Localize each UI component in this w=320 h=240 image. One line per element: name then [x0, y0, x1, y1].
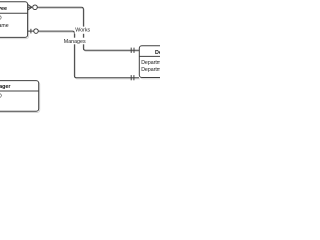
background	[0, 0, 160, 120]
circle (zero) on Manages near Employee	[34, 29, 39, 33]
shadow of entity Employee	[0, 3, 29, 39]
edge Manages: Employee to Department	[28, 31, 139, 78]
svg-text:Employee: Employee	[0, 6, 7, 12]
svg-text:Manager: Manager	[0, 84, 11, 90]
label Manages (white background)	[63, 38, 86, 45]
crow's foot (many) at Employee top	[28, 4, 32, 10]
double bar (one and only one) at Department top	[131, 48, 134, 53]
svg-text:Manages: Manages	[64, 39, 86, 45]
entity Department (cut off at right)	[139, 46, 199, 78]
svg-text:EmployeeID: EmployeeID	[0, 16, 2, 22]
entity Employee (cut off at left)	[0, 2, 28, 38]
circle (zero) on Works near Employee	[33, 5, 38, 10]
label Works (white background)	[75, 27, 92, 34]
edge Works: Employee to Department	[37, 7, 139, 50]
svg-text:EmployeeName: EmployeeName	[0, 23, 9, 29]
svg-text:Works: Works	[75, 27, 90, 33]
shadow of edge Manages	[39, 32, 140, 79]
single bar (one) at Employee bottom	[30, 29, 32, 34]
divider Manager	[0, 90, 39, 92]
divider Employee	[0, 12, 28, 14]
svg-text:ManagerID: ManagerID	[0, 94, 2, 100]
shadow of entity Manager	[0, 82, 40, 113]
svg-text:DepartmentID: DepartmentID	[141, 60, 160, 66]
shadow of entity Department	[140, 47, 200, 79]
shadow of edge Works	[38, 8, 140, 51]
entity Manager (cut off at left)	[0, 81, 39, 112]
shadows group	[0, 3, 200, 113]
svg-text:Department: Department	[155, 50, 160, 56]
double bar (one and only one) at Department bottom	[131, 75, 134, 80]
svg-text:DepartmentName: DepartmentName	[141, 67, 160, 73]
divider Department	[139, 55, 160, 57]
